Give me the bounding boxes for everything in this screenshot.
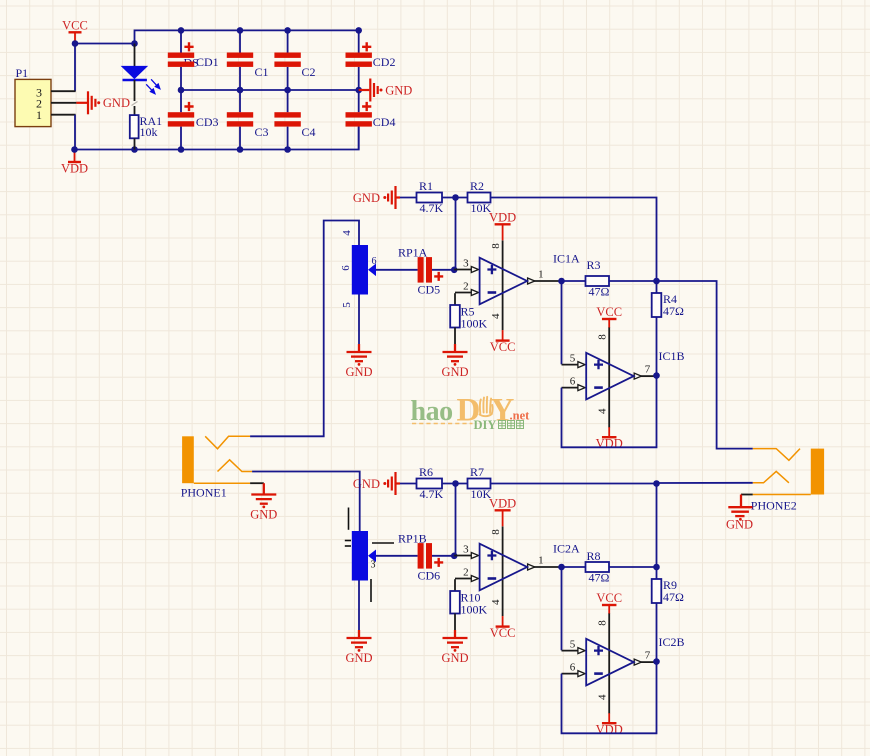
svg-text:3: 3 [463, 258, 469, 270]
svg-text:4: 4 [597, 694, 609, 700]
svg-text:5: 5 [341, 302, 353, 308]
svg-text:47Ω: 47Ω [589, 571, 610, 585]
svg-text:GND: GND [345, 365, 372, 379]
junction (IC1A output) [558, 278, 565, 285]
junction (IC1A pin 3 node) [451, 267, 458, 274]
svg-text:PHONE2: PHONE2 [751, 499, 797, 513]
junction [131, 40, 138, 47]
svg-text:VDD: VDD [596, 723, 623, 737]
resistor R9 [656, 567, 658, 579]
wire CD6 to IC2A input [432, 555, 454, 557]
wire CD5 to IC1A input [432, 269, 454, 271]
power port VDD (IC1A pin 8) [495, 224, 511, 240]
svg-text:GND: GND [353, 477, 380, 491]
resistor R7 [468, 479, 491, 489]
svg-text:8: 8 [490, 243, 502, 249]
svg-text:IC1B: IC1B [659, 349, 685, 363]
resistor RA1 [130, 115, 139, 138]
svg-text:DIY: DIY [474, 418, 497, 432]
wire PHONE2 sleeve to ground [741, 494, 753, 496]
resistor R5 [454, 293, 456, 305]
power port VCC (input) [69, 32, 82, 43]
svg-text:GND: GND [250, 507, 277, 521]
resistor R1 [417, 193, 443, 203]
wire IC2A output to IC2B pin 5 [561, 567, 563, 650]
svg-text:100K: 100K [461, 602, 488, 616]
junction [178, 87, 185, 94]
junction [178, 146, 185, 153]
capacitor CD4 [358, 90, 360, 150]
potentiometer RP1A [352, 245, 368, 295]
svg-text:R3: R3 [587, 258, 601, 272]
wire IC1A output to IC1B pin 5 [561, 281, 563, 364]
junction (IC2A pin 3 node) [451, 553, 458, 560]
signal ground (R5) [443, 344, 468, 361]
wire VCC to P1 pin 3 [74, 44, 76, 92]
power ground GND (R6 input) [400, 483, 417, 485]
wire PHONE1 sleeve to ground [250, 482, 264, 484]
power port VCC (IC1B pin 8) [602, 319, 617, 328]
svg-text:CD3: CD3 [196, 115, 219, 129]
svg-text:2: 2 [463, 281, 469, 293]
svg-text:R1: R1 [419, 179, 433, 193]
capacitor CD3 [180, 90, 182, 150]
wire P1 pin 1 to VDD rail [74, 115, 76, 150]
svg-text:7: 7 [645, 650, 651, 662]
capacitor C4 [287, 90, 289, 150]
junction [237, 87, 244, 94]
power port VDD (input) [68, 151, 81, 162]
wire bias node to IC1A pin 3 [455, 198, 457, 270]
svg-text:4: 4 [490, 599, 502, 605]
resistor R8 [562, 566, 657, 568]
signal ground (RP1A) [347, 344, 372, 361]
connector P1 [15, 79, 51, 126]
potentiometer RP1B [352, 531, 368, 581]
wire upper output to PHONE2 tip [657, 281, 753, 449]
svg-text:6: 6 [372, 256, 377, 267]
wire RP1A to ground [358, 295, 360, 345]
svg-text:GND: GND [441, 651, 468, 665]
wire VCC rail to capacitor top rail [75, 30, 359, 43]
svg-text:R6: R6 [419, 465, 433, 479]
junction (IC2B output) [653, 658, 660, 665]
signal ground (PHONE2) [728, 495, 752, 517]
capacitor C2 [287, 30, 289, 90]
resistor R10 [454, 579, 456, 591]
junction (headphone node) [653, 564, 660, 571]
svg-text:5: 5 [570, 639, 576, 651]
svg-text:R2: R2 [470, 179, 484, 193]
svg-text:GND: GND [726, 518, 753, 532]
resistor R3 [562, 280, 657, 282]
svg-text:10k: 10k [140, 125, 158, 139]
svg-text:5: 5 [570, 353, 576, 365]
svg-text:C3: C3 [255, 125, 269, 139]
svg-text:CD6: CD6 [418, 569, 441, 583]
svg-text:VDD: VDD [596, 437, 623, 451]
svg-text:VCC: VCC [596, 305, 622, 319]
junction [284, 146, 291, 153]
phone jack PHONE2 [811, 449, 824, 495]
wire capacitor mid rail [181, 89, 359, 91]
power port VDD (IC1B pin 4) [602, 427, 617, 437]
power ground GND (filter rail) [359, 79, 378, 102]
svg-text:VDD: VDD [489, 496, 516, 510]
wire R4 to IC1B output [656, 317, 658, 376]
svg-text:6: 6 [570, 662, 576, 674]
wire PHONE1 ring to RP1B [252, 472, 360, 532]
capacitor C1 [239, 30, 241, 90]
wire R2 to output node [491, 198, 657, 282]
power ground GND (P1 pin 2) [76, 91, 95, 114]
svg-text:GND: GND [441, 365, 468, 379]
svg-text:2: 2 [463, 567, 469, 579]
capacitor CD5 [418, 257, 424, 283]
junction [237, 146, 244, 153]
svg-text:47Ω: 47Ω [663, 304, 684, 318]
junction [131, 146, 138, 153]
svg-text:1: 1 [36, 108, 42, 122]
wire R9 to IC2B output [656, 603, 658, 662]
svg-text:47Ω: 47Ω [663, 590, 684, 604]
wire IC1B feedback loop [562, 376, 657, 448]
power port VCC (IC2B pin 8) [602, 605, 617, 614]
svg-text:1: 1 [538, 269, 544, 281]
wire PHONE1 tip to RP1A [250, 221, 359, 437]
junction (bias node) [452, 480, 459, 487]
resistor R4 [656, 281, 658, 293]
wire bias node to IC2A pin 3 [455, 484, 457, 556]
signal ground (RP1B) [347, 630, 372, 647]
junction [71, 146, 78, 153]
junction [284, 87, 291, 94]
pin marks RP1B [345, 508, 394, 603]
svg-text:4.7K: 4.7K [420, 487, 444, 501]
power port VCC (IC2A pin 4) [496, 616, 510, 627]
power port VDD (IC2B pin 4) [602, 713, 617, 723]
svg-text:VCC: VCC [490, 340, 516, 354]
svg-text:CD5: CD5 [418, 283, 441, 297]
wire lower output to PHONE2 ring [657, 482, 753, 484]
watermark haoDIY.net [411, 392, 531, 428]
svg-text:VCC: VCC [62, 18, 88, 32]
junction [284, 27, 291, 34]
wire IC2B feedback loop [562, 662, 657, 734]
svg-text:IC2B: IC2B [659, 635, 685, 649]
op-amp IC1A [454, 240, 561, 330]
svg-text:C4: C4 [302, 125, 316, 139]
svg-text:7: 7 [645, 364, 651, 376]
svg-text:100K: 100K [461, 316, 488, 330]
svg-text:C2: C2 [302, 65, 316, 79]
svg-text:6: 6 [340, 265, 352, 271]
junction [178, 27, 185, 34]
svg-text:P1: P1 [16, 66, 29, 80]
junction (output rail) [653, 480, 660, 487]
capacitor CD2 [358, 30, 360, 90]
svg-text:R8: R8 [587, 549, 601, 563]
svg-text:4: 4 [490, 313, 502, 319]
svg-text:8: 8 [490, 529, 502, 535]
capacitor C3 [239, 90, 241, 150]
phone jack PHONE1 [182, 436, 194, 483]
wire capacitor bottom rail [75, 127, 359, 150]
svg-text:GND: GND [345, 651, 372, 665]
op-amp IC2B [562, 613, 657, 714]
op-amp IC2A [454, 526, 561, 616]
svg-text:CD1: CD1 [196, 55, 219, 69]
junction [72, 40, 79, 47]
capacitor CD6 [418, 543, 424, 569]
svg-text:IC2A: IC2A [553, 541, 580, 555]
junction [355, 27, 362, 34]
svg-text:VDD: VDD [489, 210, 516, 224]
signal ground (R10) [443, 630, 468, 647]
svg-text:IC1A: IC1A [553, 252, 580, 266]
power ground GND (R1 input) [400, 197, 417, 199]
svg-text:VDD: VDD [61, 162, 88, 176]
svg-text:8: 8 [597, 334, 609, 340]
svg-text:GND: GND [103, 96, 130, 110]
wire RP1B wiper to CD6 [376, 555, 418, 557]
junction (IC1B output) [653, 372, 660, 379]
svg-text:CD4: CD4 [373, 115, 396, 129]
svg-text:C1: C1 [255, 65, 269, 79]
svg-text:PHONE1: PHONE1 [181, 485, 227, 499]
svg-text:VCC: VCC [490, 626, 516, 640]
wire output rail down to R8 [656, 484, 658, 568]
svg-text:4: 4 [597, 408, 609, 414]
wire RP1A wiper to CD5 [376, 269, 418, 271]
svg-text:47Ω: 47Ω [589, 285, 610, 299]
svg-text:1: 1 [538, 555, 544, 567]
signal ground (PHONE1) [251, 483, 276, 504]
capacitor CD1 [180, 30, 182, 90]
resistor R6 [417, 479, 443, 489]
junction (bias node) [452, 194, 459, 201]
op-amp IC1B [562, 327, 657, 428]
power port VCC (IC1A pin 4) [496, 330, 510, 341]
svg-text:R7: R7 [470, 465, 484, 479]
svg-text:3: 3 [463, 544, 469, 556]
junction [355, 87, 362, 94]
svg-text:6: 6 [570, 376, 576, 388]
svg-text:4: 4 [341, 230, 353, 236]
junction (headphone node) [653, 278, 660, 285]
resistor R2 [468, 193, 491, 203]
svg-text:CD2: CD2 [373, 55, 396, 69]
wire R7 to output rail [491, 483, 657, 485]
LED DS [134, 44, 136, 67]
wire RP1B to ground [358, 581, 360, 631]
svg-text:hao: hao [411, 396, 453, 427]
svg-text:GND: GND [353, 191, 380, 205]
svg-text:3: 3 [371, 560, 376, 571]
svg-text:VCC: VCC [596, 591, 622, 605]
power port VDD (IC2A pin 8) [495, 510, 511, 526]
svg-text:4.7K: 4.7K [420, 201, 444, 215]
svg-text:GND: GND [385, 83, 412, 97]
junction (IC2A output) [558, 564, 565, 571]
junction [237, 27, 244, 34]
svg-text:8: 8 [597, 620, 609, 626]
